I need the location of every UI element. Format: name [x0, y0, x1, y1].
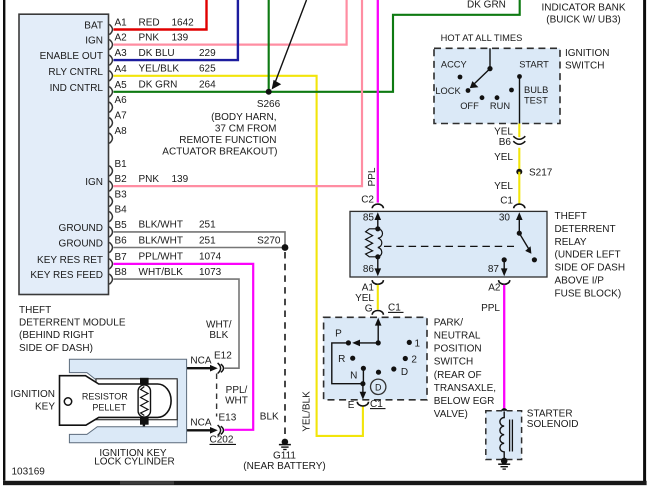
wire A2 PNK 139	[114, 0, 347, 45]
svg-text:B4: B4	[115, 205, 128, 216]
ignition switch box	[434, 48, 560, 123]
svg-text:PPL: PPL	[481, 303, 500, 314]
svg-text:IND CNTRL: IND CNTRL	[50, 83, 104, 94]
svg-text:S270: S270	[257, 235, 281, 246]
starter solenoid box	[486, 411, 522, 460]
connector C1 arc at relay 30	[514, 204, 525, 208]
contact dot below common	[376, 370, 381, 375]
wire A3 DK BLU 229	[114, 0, 238, 60]
svg-text:IGN: IGN	[85, 36, 103, 47]
svg-text:RESISTOR: RESISTOR	[82, 392, 128, 402]
svg-text:YEL: YEL	[494, 152, 513, 163]
svg-text:YEL: YEL	[355, 293, 374, 304]
svg-text:NCA: NCA	[190, 355, 211, 366]
wire B7 PPL/WHT 1074	[114, 264, 254, 430]
key hole	[64, 398, 71, 405]
wire S270 to G111 dashed	[284, 252, 286, 438]
pin A1 terminal symbol	[109, 24, 112, 34]
svg-text:B3: B3	[115, 189, 128, 200]
svg-text:PNK: PNK	[139, 174, 160, 185]
wire YEL S217 to C1	[518, 172, 520, 204]
wire left page border	[3, 0, 5, 481]
svg-text:FUSE BLOCK): FUSE BLOCK)	[555, 288, 622, 299]
wire A5 DK GRN 264	[114, 0, 520, 92]
contact D	[391, 366, 396, 371]
wire A1 RED 1642	[114, 0, 207, 30]
svg-text:WHT/: WHT/	[206, 319, 232, 330]
svg-text:BLK/WHT: BLK/WHT	[139, 220, 183, 231]
solenoid coil L1	[500, 411, 504, 461]
svg-text:KEY RES FEED: KEY RES FEED	[30, 270, 103, 281]
connector E arc	[357, 402, 368, 406]
relay armature dashed link	[384, 245, 514, 247]
pin A7 terminal symbol	[109, 118, 112, 128]
wire DK GRN branch up from S266	[268, 0, 270, 92]
svg-text:LOCK: LOCK	[435, 86, 461, 96]
relay coil bottom node	[375, 254, 380, 259]
svg-text:P: P	[335, 329, 342, 340]
wire P loop to E	[332, 343, 363, 384]
bottom scrollbar bar	[3, 481, 647, 485]
wire key bottom contact to E13	[144, 424, 213, 430]
lock cylinder body	[69, 359, 186, 443]
wire B8 WHT/BLK 1073	[114, 279, 240, 368]
svg-text:GROUND: GROUND	[59, 239, 103, 250]
svg-text:THEFT: THEFT	[555, 211, 587, 222]
svg-text:PPL: PPL	[367, 167, 378, 186]
svg-text:E: E	[348, 400, 355, 411]
svg-text:B7: B7	[115, 252, 128, 263]
svg-text:B6: B6	[499, 137, 512, 148]
svg-text:IGN: IGN	[85, 177, 103, 188]
wire PPL relay to solenoid	[503, 285, 505, 412]
svg-text:HOT AT ALL TIMES: HOT AT ALL TIMES	[441, 33, 523, 43]
svg-text:87: 87	[488, 264, 500, 275]
svg-text:A2: A2	[488, 283, 501, 294]
relay switch blade	[519, 233, 528, 248]
svg-text:TEST: TEST	[524, 96, 548, 106]
svg-text:DK BLU: DK BLU	[139, 48, 175, 59]
svg-text:DETERRENT: DETERRENT	[555, 224, 616, 235]
svg-text:(NEAR BATTERY): (NEAR BATTERY)	[243, 461, 325, 472]
svg-text:RUN: RUN	[490, 101, 510, 111]
svg-text:A1: A1	[362, 283, 375, 294]
svg-text:139: 139	[172, 32, 189, 43]
svg-text:YEL: YEL	[494, 127, 513, 138]
svg-text:ENABLE OUT: ENABLE OUT	[40, 51, 103, 62]
wire PPL from top to C2	[377, 0, 379, 203]
node S217 splice	[516, 169, 522, 175]
svg-text:THEFT: THEFT	[19, 305, 51, 316]
contact OFF	[480, 95, 485, 100]
wire START to box bottom	[519, 77, 521, 124]
node S270 splice	[282, 244, 289, 251]
connector G arc at PN switch	[372, 311, 383, 315]
pin A4 terminal symbol	[109, 71, 112, 81]
svg-text:REMOTE FUNCTION: REMOTE FUNCTION	[179, 135, 276, 146]
pin B2 terminal symbol	[109, 181, 112, 191]
svg-text:C1: C1	[500, 196, 513, 207]
svg-text:103169: 103169	[12, 467, 46, 478]
svg-text:139: 139	[172, 174, 189, 185]
connector B6 symbol	[513, 136, 525, 144]
svg-text:(REAR OF: (REAR OF	[434, 370, 482, 381]
svg-text:B5: B5	[115, 220, 128, 231]
svg-text:625: 625	[199, 64, 216, 75]
svg-text:(BEHIND RIGHT: (BEHIND RIGHT	[19, 330, 94, 341]
wire key top contact to E12	[144, 368, 213, 378]
contact ACCY	[458, 75, 463, 80]
contact 1	[407, 340, 412, 345]
ground at solenoid	[498, 463, 510, 465]
pin A3 terminal symbol	[109, 55, 112, 65]
svg-text:ACCY: ACCY	[441, 60, 467, 70]
ground G111	[282, 439, 289, 446]
svg-text:A4: A4	[115, 64, 128, 75]
pin B6 terminal symbol	[109, 242, 112, 252]
svg-text:251: 251	[199, 235, 216, 246]
svg-text:PPL/WHT: PPL/WHT	[139, 252, 183, 263]
svg-text:IGNITION: IGNITION	[565, 48, 609, 59]
connector E12 symbol	[218, 363, 224, 374]
ignition key	[60, 376, 172, 426]
svg-text:PELLET: PELLET	[92, 402, 126, 412]
pin B3 terminal symbol	[109, 196, 112, 206]
circled D indicator	[371, 379, 386, 394]
svg-text:ACTUATOR BREAKOUT): ACTUATOR BREAKOUT)	[162, 146, 277, 157]
wire junction to E pin	[362, 384, 364, 395]
svg-text:WHT: WHT	[225, 396, 248, 407]
pin A5 terminal symbol	[109, 87, 112, 97]
connector A2 arc	[499, 280, 510, 284]
svg-text:A2: A2	[115, 33, 128, 44]
svg-text:DK GRN: DK GRN	[467, 0, 506, 11]
node S266 splice	[266, 89, 272, 95]
svg-text:RLY CNTRL: RLY CNTRL	[48, 67, 103, 78]
key top contact	[140, 378, 149, 385]
svg-text:KEY: KEY	[35, 402, 55, 413]
resistor pellet R1 body	[138, 385, 150, 417]
connector C202 dashed link	[216, 374, 218, 417]
svg-text:BLK: BLK	[209, 330, 228, 341]
svg-text:DK GRN: DK GRN	[139, 80, 178, 91]
key bottom contact	[140, 418, 149, 425]
svg-text:(BUICK W/ UB3): (BUICK W/ UB3)	[546, 15, 620, 26]
svg-text:C2: C2	[361, 194, 374, 205]
connector C2 arc at relay 85	[372, 204, 383, 208]
svg-text:INDICATOR BANK: INDICATOR BANK	[541, 2, 625, 13]
svg-text:A3: A3	[115, 48, 128, 59]
svg-text:264: 264	[199, 80, 216, 91]
wire B5 BLK/WHT 251	[114, 232, 286, 245]
pin B7 terminal symbol	[109, 259, 112, 269]
svg-text:RED: RED	[139, 17, 160, 28]
svg-text:85: 85	[363, 213, 375, 224]
wire YEL B6 to S217	[518, 148, 520, 172]
svg-text:D: D	[401, 367, 408, 378]
svg-text:YEL/BLK: YEL/BLK	[301, 391, 312, 432]
svg-text:251: 251	[199, 220, 216, 231]
relay contact 87a dot	[532, 257, 537, 262]
svg-text:LOCK CYLINDER: LOCK CYLINDER	[94, 456, 175, 467]
svg-text:IGNITION: IGNITION	[11, 389, 55, 400]
pin A8 terminal symbol	[109, 133, 112, 143]
svg-text:RELAY: RELAY	[555, 237, 587, 248]
svg-text:A5: A5	[115, 80, 128, 91]
svg-text:YEL: YEL	[494, 181, 513, 192]
svg-text:D: D	[375, 382, 382, 392]
svg-text:YEL/BLK: YEL/BLK	[139, 64, 180, 75]
svg-text:S266: S266	[257, 99, 281, 110]
svg-text:SIDE OF DASH: SIDE OF DASH	[555, 263, 626, 274]
svg-text:A8: A8	[115, 126, 128, 137]
svg-text:BAT: BAT	[84, 21, 103, 32]
svg-text:POSITION: POSITION	[434, 344, 482, 355]
pin A2 terminal symbol	[109, 39, 112, 49]
contact R	[350, 356, 355, 361]
svg-text:BLK: BLK	[260, 411, 279, 422]
svg-text:OFF: OFF	[460, 101, 479, 111]
svg-text:GROUND: GROUND	[59, 223, 103, 234]
contact START	[517, 74, 522, 79]
contact BULB TEST	[509, 88, 514, 93]
PN switch arrow to P	[356, 342, 378, 344]
relay coil winding	[378, 229, 383, 257]
svg-text:BELOW EGR: BELOW EGR	[434, 396, 495, 407]
wire right page border	[643, 0, 646, 481]
pin B1 terminal symbol	[109, 166, 112, 176]
S266 pointer arrow	[275, 0, 307, 84]
svg-text:PNK: PNK	[139, 32, 160, 43]
contact 2	[403, 356, 408, 361]
svg-text:B6: B6	[115, 236, 128, 247]
svg-text:PPL/: PPL/	[226, 385, 248, 396]
svg-text:86: 86	[363, 264, 375, 275]
pin B5 terminal symbol	[109, 227, 112, 237]
svg-text:SOLENOID: SOLENOID	[527, 419, 579, 430]
svg-text:1074: 1074	[199, 252, 222, 263]
switch lever to LOCK	[474, 69, 491, 85]
pin B8 terminal symbol	[109, 274, 112, 284]
svg-text:1: 1	[415, 339, 421, 350]
svg-text:E13: E13	[219, 412, 237, 423]
svg-text:START: START	[519, 60, 549, 70]
relay coil resistor zigzag	[366, 229, 378, 257]
svg-text:S217: S217	[529, 167, 553, 178]
svg-text:KEY RES RET: KEY RES RET	[37, 255, 103, 266]
contact LOCK	[466, 88, 471, 93]
svg-text:A7: A7	[115, 111, 128, 122]
wire B2 PNK 139	[114, 0, 363, 186]
svg-text:WHT/BLK: WHT/BLK	[139, 267, 184, 278]
wire YEL ignition to B6 connector	[518, 124, 520, 138]
pin B4 terminal symbol	[109, 211, 112, 221]
svg-text:PARK/: PARK/	[434, 317, 463, 328]
svg-text:BULB: BULB	[524, 85, 548, 95]
svg-text:TRANSAXLE,: TRANSAXLE,	[434, 383, 496, 394]
svg-text:NEUTRAL: NEUTRAL	[434, 331, 481, 342]
svg-text:37 CM FROM: 37 CM FROM	[215, 123, 277, 134]
svg-text:NCA: NCA	[190, 418, 211, 429]
svg-text:1642: 1642	[172, 17, 195, 28]
svg-text:A6: A6	[115, 95, 128, 106]
svg-text:E12: E12	[214, 350, 232, 361]
park neutral switch box	[324, 317, 427, 400]
svg-text:STARTER: STARTER	[527, 408, 573, 419]
switch feed wire	[489, 48, 491, 68]
svg-text:1073: 1073	[199, 267, 222, 278]
svg-text:(BODY HARN,: (BODY HARN,	[211, 112, 276, 123]
node solenoid feed junction	[501, 408, 508, 415]
svg-text:B2: B2	[115, 174, 128, 185]
contact P	[346, 340, 351, 345]
svg-text:A1: A1	[115, 18, 128, 29]
lock cylinder bore outline	[96, 379, 177, 420]
svg-text:B1: B1	[115, 159, 128, 170]
relay K1 box	[350, 211, 547, 277]
svg-text:229: 229	[199, 48, 216, 59]
svg-text:2: 2	[411, 354, 417, 365]
connector E13 symbol	[218, 425, 224, 436]
svg-text:VALVE): VALVE)	[434, 409, 468, 420]
contact RUN	[495, 95, 500, 100]
connector A1 arc	[372, 280, 383, 284]
wire YEL relay to G	[377, 285, 379, 310]
solenoid ground node	[501, 458, 508, 465]
pin A6 terminal symbol	[109, 102, 112, 112]
svg-text:B8: B8	[115, 267, 128, 278]
theft deterrent module U1 box	[19, 14, 109, 294]
svg-text:G: G	[365, 304, 373, 315]
svg-text:SWITCH: SWITCH	[434, 357, 473, 368]
contact N	[361, 366, 366, 371]
svg-text:(UNDER LEFT: (UNDER LEFT	[555, 250, 621, 261]
svg-text:BLK/WHT: BLK/WHT	[139, 235, 183, 246]
wire B6 BLK/WHT 251	[114, 247, 286, 249]
PN switch common arrow to G	[377, 323, 379, 343]
resistor pellet R1 zigzag	[141, 387, 148, 416]
svg-text:SIDE OF DASH): SIDE OF DASH)	[19, 343, 93, 354]
svg-text:SWITCH: SWITCH	[565, 60, 604, 71]
wire N to E	[362, 368, 364, 383]
svg-text:ABOVE I/P: ABOVE I/P	[555, 276, 605, 287]
svg-text:N: N	[350, 370, 357, 381]
svg-text:30: 30	[499, 213, 511, 224]
wire A4 YEL/BLK 625	[114, 76, 363, 436]
svg-text:DETERRENT MODULE: DETERRENT MODULE	[19, 318, 126, 329]
solenoid core lines	[509, 420, 511, 452]
svg-text:R: R	[338, 354, 345, 365]
